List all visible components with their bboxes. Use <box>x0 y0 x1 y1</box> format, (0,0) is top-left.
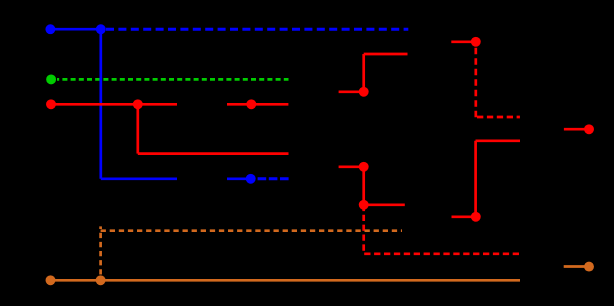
wire red branch vertical <box>136 104 139 153</box>
wire red right vertical <box>474 141 477 217</box>
wire red step2 vertical <box>362 167 365 205</box>
wire blue dashed top <box>106 28 408 31</box>
wire red dashed lower elbow <box>364 205 520 254</box>
node blue B3 <box>246 174 256 184</box>
wire red right stub bottom <box>452 215 476 218</box>
wire red right horizontal <box>476 139 521 142</box>
node red R3 <box>246 99 256 109</box>
wire red dashed right elbow <box>474 48 477 121</box>
wire red dashed right horizontal <box>477 116 520 119</box>
wire orange dashed horizontal <box>101 229 402 232</box>
node red R7 <box>471 37 481 47</box>
wire red step1 top <box>364 53 408 56</box>
node orange O1 <box>46 275 56 285</box>
wire red row3 right <box>227 103 288 106</box>
wire blue lower right <box>227 177 251 180</box>
wire blue dashed lower <box>258 177 289 180</box>
wire blue lower left <box>101 177 177 180</box>
wire orange merge stub <box>564 265 589 268</box>
wire red step1 stub <box>339 90 364 93</box>
wire red step2 stub <box>339 165 364 168</box>
wire red step2 bottom <box>364 203 405 206</box>
node red R1 <box>46 99 56 109</box>
wire blue vertical <box>99 29 102 179</box>
wire red row3 left <box>51 103 177 106</box>
node red R4 <box>359 87 369 97</box>
wire green dashed <box>57 78 289 81</box>
wire red right stub top <box>451 40 476 43</box>
node red R8 <box>471 212 481 222</box>
wire orange main <box>51 279 521 282</box>
wire blue solid top <box>50 28 100 31</box>
node red R6 <box>359 200 369 210</box>
node orange O3 <box>584 262 594 272</box>
node blue B1 <box>45 24 55 34</box>
wire red merge stub <box>564 128 589 131</box>
wire red step1 vertical <box>362 54 365 92</box>
node blue B2 <box>96 24 106 34</box>
node red R2 <box>133 99 143 109</box>
node red R5 <box>359 162 369 172</box>
wire orange dashed elbow <box>99 226 102 274</box>
node red R9 <box>584 124 594 134</box>
wire red branch horizontal <box>138 152 289 155</box>
node orange O2 <box>96 275 106 285</box>
node green G1 <box>46 74 56 84</box>
